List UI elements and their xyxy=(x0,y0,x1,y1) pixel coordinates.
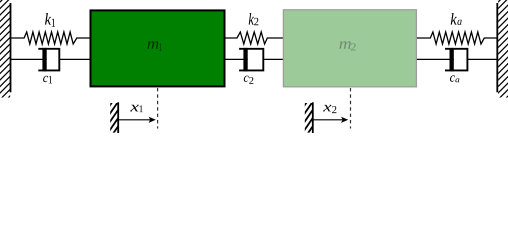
label k1 xyxy=(45,13,55,27)
x2 arrow xyxy=(313,119,343,121)
right wall support xyxy=(497,0,508,114)
label ca xyxy=(450,75,459,82)
damper c1 xyxy=(11,58,47,60)
dashed reference line m2 xyxy=(350,88,352,129)
mass m2 xyxy=(283,10,416,87)
label x2 xyxy=(323,105,336,113)
label ka xyxy=(451,13,462,25)
label m1 xyxy=(147,41,162,51)
spring k1 xyxy=(11,32,91,44)
x1 wall line xyxy=(117,102,119,133)
x1 ground support xyxy=(109,93,118,147)
spring ka xyxy=(417,32,497,44)
label m2 xyxy=(339,41,355,50)
dashed reference line m1 xyxy=(157,88,159,129)
spring k2 xyxy=(226,32,284,44)
left wall support xyxy=(0,0,11,113)
mass m1 xyxy=(91,10,225,86)
x2 ground support xyxy=(304,93,313,147)
x2 wall line xyxy=(312,102,314,133)
damper ca xyxy=(417,58,454,60)
label c2 xyxy=(244,76,254,84)
label k2 xyxy=(249,13,259,25)
x1 arrow xyxy=(118,119,150,121)
label x1 xyxy=(130,105,143,112)
label c1 xyxy=(43,76,52,84)
right wall line xyxy=(496,3,498,92)
damper c2 xyxy=(226,58,248,60)
left wall line xyxy=(10,3,12,92)
